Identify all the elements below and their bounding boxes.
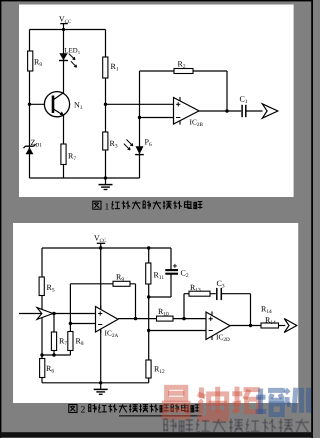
svg-text:1: 1 (105, 202, 110, 212)
svg-text:2: 2 (81, 406, 86, 416)
